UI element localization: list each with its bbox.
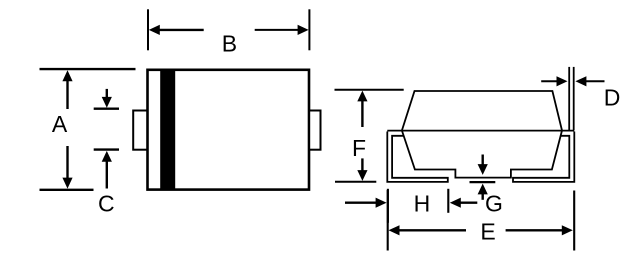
dimension G arrow up bbox=[478, 184, 488, 200]
dimension B tick right bbox=[308, 9, 310, 50]
dimension E arrow right bbox=[506, 225, 573, 235]
dimension H arrow left bbox=[345, 198, 387, 208]
left lead bbox=[387, 132, 448, 182]
dimension C reference line bottom bbox=[94, 148, 119, 150]
dimension E tick right bbox=[573, 191, 575, 251]
cathode band bbox=[160, 69, 175, 190]
dimension A arrow down bbox=[62, 146, 72, 189]
dimension F arrow down bbox=[357, 158, 367, 181]
dimension B arrow right bbox=[255, 25, 309, 35]
svg-text:D: D bbox=[604, 85, 621, 111]
dimension C arrow down bbox=[102, 89, 112, 108]
side view body lower outline bbox=[402, 131, 562, 178]
svg-text:A: A bbox=[52, 111, 68, 137]
dimension A arrow up bbox=[62, 70, 72, 109]
side view body upper outline bbox=[402, 91, 562, 131]
svg-text:B: B bbox=[222, 31, 237, 57]
dimension A extension line bottom bbox=[40, 189, 94, 191]
right terminal tab bbox=[309, 111, 320, 150]
dimension G reference line bbox=[470, 181, 496, 183]
left terminal tab bbox=[133, 111, 147, 150]
svg-text:E: E bbox=[480, 219, 495, 245]
package body top view bbox=[148, 70, 310, 190]
dimension H tick right bbox=[447, 189, 449, 213]
dimension F arrow up bbox=[357, 91, 367, 127]
dimension D arrow right bbox=[575, 76, 604, 86]
right lead bbox=[513, 132, 574, 182]
dimension C arrow up bbox=[102, 151, 112, 189]
dimension D extension lines bbox=[569, 67, 574, 130]
svg-text:C: C bbox=[98, 191, 115, 217]
svg-text:H: H bbox=[414, 191, 431, 217]
dimension G arrow down bbox=[478, 155, 488, 175]
svg-text:F: F bbox=[352, 135, 366, 161]
dimension D arrow left bbox=[541, 76, 567, 86]
svg-text:G: G bbox=[485, 191, 503, 217]
dimension F extension line top bbox=[335, 89, 404, 91]
dimension E tick left bbox=[387, 190, 389, 251]
dimension B arrow left bbox=[149, 25, 204, 35]
dimension A extension line top bbox=[40, 68, 136, 70]
dimension C reference line top bbox=[94, 107, 119, 109]
dimension E arrow left bbox=[389, 225, 467, 235]
dimension B tick left bbox=[147, 9, 149, 50]
dimension H tick left bbox=[387, 189, 389, 223]
side view mid line bbox=[387, 130, 574, 132]
dimension H arrow right bbox=[450, 198, 478, 208]
dimension F extension line bottom bbox=[335, 181, 376, 183]
